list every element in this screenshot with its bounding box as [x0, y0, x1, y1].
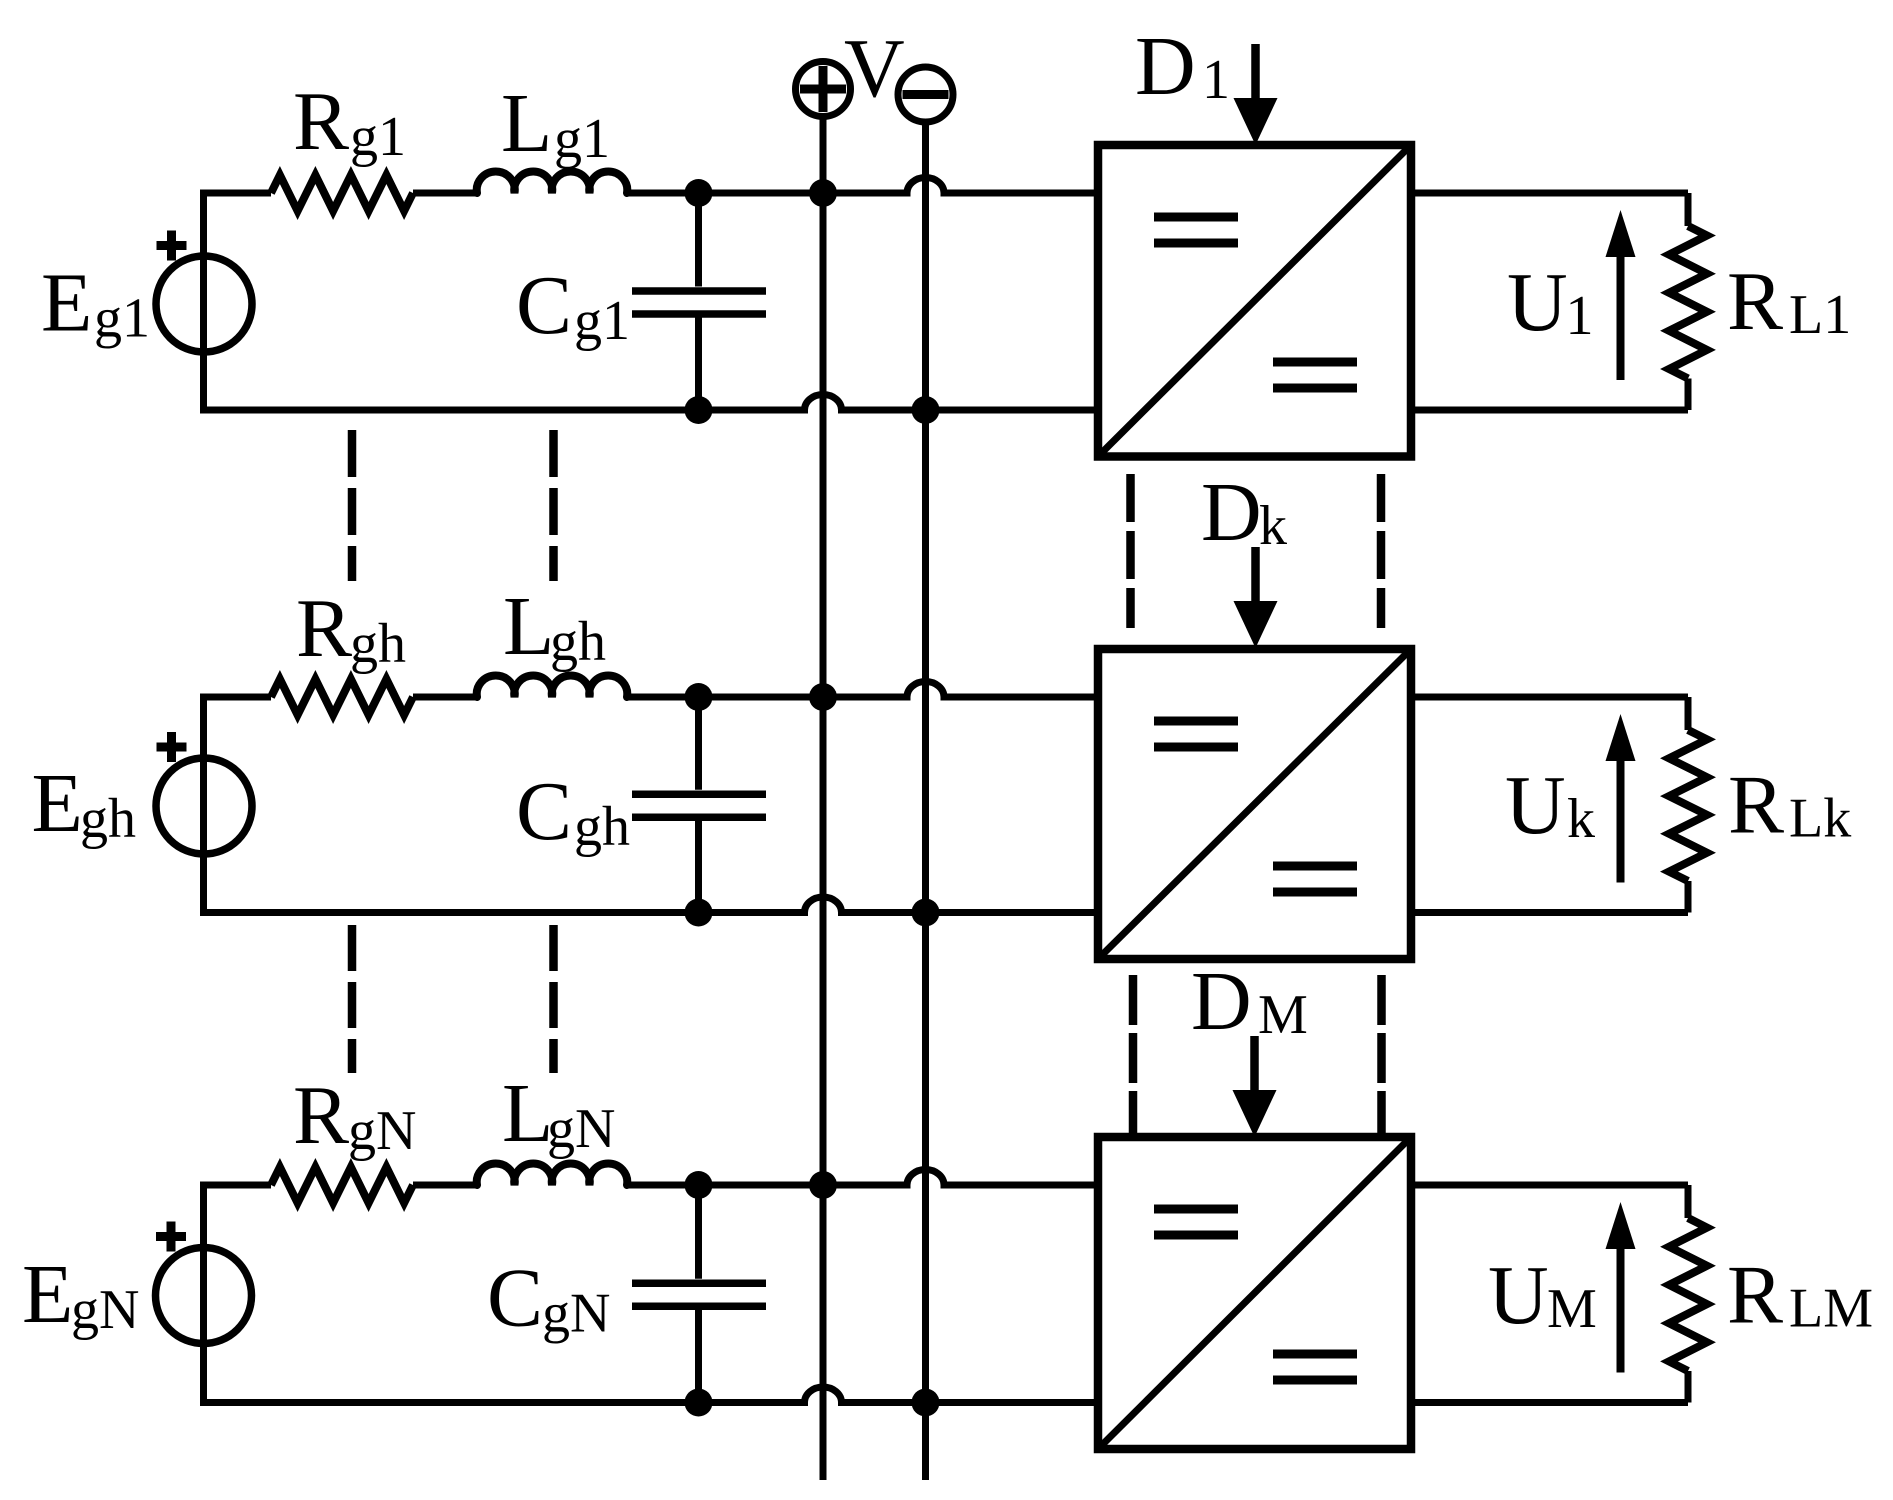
label RL1: [1727, 255, 1851, 348]
voltage source Egh: [156, 697, 252, 913]
svg-text:R: R: [1728, 759, 1784, 852]
label Uk: [1505, 759, 1595, 852]
dc-dc converter Uh: [1098, 649, 1411, 959]
svg-text:D: D: [1191, 955, 1252, 1048]
resistor RgN: [271, 1167, 413, 1203]
label LgN: [502, 1067, 615, 1160]
resistor Rgh: [271, 679, 413, 715]
load resistor RLM: [1669, 1185, 1707, 1403]
bus positive terminal symbol +: [796, 62, 851, 117]
label U1: [1507, 256, 1594, 349]
svg-text:L: L: [503, 580, 554, 673]
svg-text:M: M: [1547, 1278, 1597, 1340]
junction dot top wire / positive bus row N: [809, 1171, 837, 1199]
label Cgh: [516, 765, 630, 858]
label Rg1: [293, 75, 406, 168]
svg-text:C: C: [516, 259, 572, 352]
dc-dc converter UN: [1098, 1137, 1411, 1449]
label CgN: [487, 1252, 610, 1345]
wire top from Lgh to converter with hop over negative bus: [627, 681, 1098, 697]
svg-text:E: E: [32, 757, 83, 850]
svg-text:D: D: [1135, 20, 1196, 113]
svg-text:g1: g1: [554, 108, 610, 170]
svg-text:Lk: Lk: [1789, 788, 1851, 850]
junction node dot top at Cg1: [685, 179, 713, 207]
label Lg1: [501, 77, 610, 170]
polarity plus mark of Egh: [157, 732, 187, 762]
junction dot bottom wire / negative bus row N: [912, 1389, 940, 1417]
inductor LgN: [477, 1164, 628, 1185]
dc-dc converter U1: [1098, 145, 1411, 457]
svg-text:M: M: [1258, 984, 1308, 1046]
resistor Rg1: [271, 175, 413, 211]
svg-text:1: 1: [1202, 49, 1230, 111]
wire output bottom row N: [1411, 1399, 1688, 1406]
control arrow D1: [1234, 44, 1278, 145]
label UM: [1488, 1249, 1597, 1342]
svg-text:R: R: [1727, 255, 1783, 348]
label DM: [1191, 955, 1308, 1048]
dashed continuation line converter right rows 2-3: [1377, 975, 1386, 1133]
wire output bottom row 1: [1411, 407, 1688, 414]
wire top from LgN to converter with hop over negative bus: [627, 1170, 1098, 1186]
bus negative terminal symbol -: [898, 67, 953, 122]
svg-text:C: C: [516, 765, 572, 858]
capacitor Cg1: [632, 193, 766, 410]
junction node dot bottom at Cg1: [685, 396, 713, 424]
svg-text:U: U: [1488, 1249, 1549, 1342]
label Egh: [32, 757, 137, 850]
svg-text:gN: gN: [348, 1100, 416, 1162]
wire bus line negative: [922, 123, 929, 1480]
svg-text:E: E: [41, 257, 92, 350]
inductor Lg1: [477, 172, 628, 193]
svg-text:C: C: [487, 1252, 543, 1345]
svg-text:LM: LM: [1789, 1278, 1873, 1340]
junction dot top wire / positive bus row 1: [809, 179, 837, 207]
capacitor Cgh: [632, 697, 766, 913]
voltage arrow U1: [1606, 210, 1636, 380]
control arrow DM: [1233, 1036, 1277, 1137]
svg-text:U: U: [1505, 759, 1566, 852]
voltage source Eg1: [156, 193, 252, 410]
inductor Lgh: [477, 676, 628, 697]
svg-text:g1: g1: [350, 106, 406, 168]
dashed continuation line left R column rows 2-3: [348, 925, 357, 1073]
label Dk: [1201, 466, 1287, 559]
polarity plus mark of Eg1: [157, 231, 187, 261]
label Rgh: [296, 582, 406, 675]
label Cg1: [516, 259, 630, 352]
label RLM: [1727, 1249, 1873, 1342]
wire top from Lg1 to converter with hop over negative bus: [627, 178, 1098, 194]
label Eg1: [41, 257, 150, 350]
svg-text:R: R: [296, 582, 352, 675]
bus voltage label V: [844, 22, 905, 115]
load resistor RLk: [1669, 697, 1707, 913]
junction node dot bottom at Cgh: [685, 899, 713, 927]
wire between Rgh and Lgh: [413, 694, 477, 701]
junction dot bottom wire / negative bus row 1: [912, 396, 940, 424]
label RgN: [293, 1069, 416, 1162]
dashed continuation line converter left rows 2-3: [1129, 975, 1138, 1133]
voltage source EgN: [156, 1185, 252, 1403]
dashed continuation line converter right rows 1-2: [1377, 474, 1386, 628]
label EgN: [22, 1248, 139, 1341]
wire top left segment row 1: [200, 190, 271, 197]
dashed continuation line left L column rows 1-2: [549, 430, 558, 581]
svg-text:R: R: [293, 75, 349, 168]
svg-text:gh: gh: [550, 611, 606, 673]
svg-text:R: R: [1727, 1249, 1783, 1342]
junction node dot bottom at CgN: [685, 1389, 713, 1417]
dashed continuation line left L column rows 2-3: [549, 925, 558, 1073]
polarity plus mark of EgN: [156, 1222, 186, 1252]
svg-text:1: 1: [1566, 285, 1594, 347]
svg-text:D: D: [1201, 466, 1262, 559]
voltage arrow UM: [1606, 1202, 1636, 1373]
svg-text:g1: g1: [574, 290, 630, 352]
junction dot bottom wire / negative bus row h: [912, 899, 940, 927]
control arrow Dk: [1234, 547, 1278, 648]
wire top left segment row N: [200, 1182, 271, 1189]
wire output bottom row h: [1411, 909, 1688, 916]
svg-text:L: L: [502, 1067, 553, 1160]
wire bottom row N with hop over positive bus: [200, 1387, 1098, 1403]
svg-text:L: L: [501, 77, 552, 170]
wire bottom row h with hop over positive bus: [200, 897, 1098, 913]
svg-text:gh: gh: [80, 788, 136, 850]
svg-text:L1: L1: [1789, 284, 1851, 346]
svg-text:g1: g1: [94, 288, 150, 350]
svg-text:gN: gN: [542, 1283, 610, 1345]
wire top left segment row h: [200, 694, 271, 701]
label D1: [1135, 20, 1230, 113]
wire bottom row 1 with hop over positive bus: [200, 395, 1098, 411]
load resistor RL1: [1669, 193, 1707, 410]
svg-text:k: k: [1259, 495, 1287, 557]
label Lgh: [503, 580, 606, 673]
svg-text:gN: gN: [547, 1098, 615, 1160]
wire output top row N: [1411, 1182, 1688, 1189]
svg-text:k: k: [1567, 788, 1595, 850]
dashed continuation line left R column rows 1-2: [348, 430, 357, 581]
wire bus line positive: [820, 118, 827, 1480]
svg-text:U: U: [1507, 256, 1568, 349]
junction dot top wire / positive bus row h: [809, 683, 837, 711]
capacitor CgN: [632, 1185, 766, 1403]
svg-text:E: E: [22, 1248, 73, 1341]
wire between Rg1 and Lg1: [413, 190, 477, 197]
wire output top row 1: [1411, 190, 1688, 197]
svg-text:gh: gh: [350, 613, 406, 675]
svg-text:gN: gN: [71, 1279, 139, 1341]
wire between RgN and LgN: [413, 1182, 477, 1189]
wire output top row h: [1411, 694, 1688, 701]
label RLk: [1728, 759, 1851, 852]
voltage arrow Uk: [1606, 714, 1636, 883]
dashed continuation line converter left rows 1-2: [1126, 474, 1135, 628]
junction node dot top at CgN: [685, 1171, 713, 1199]
svg-text:R: R: [293, 1069, 349, 1162]
junction node dot top at Cgh: [685, 683, 713, 711]
svg-text:gh: gh: [574, 796, 630, 858]
